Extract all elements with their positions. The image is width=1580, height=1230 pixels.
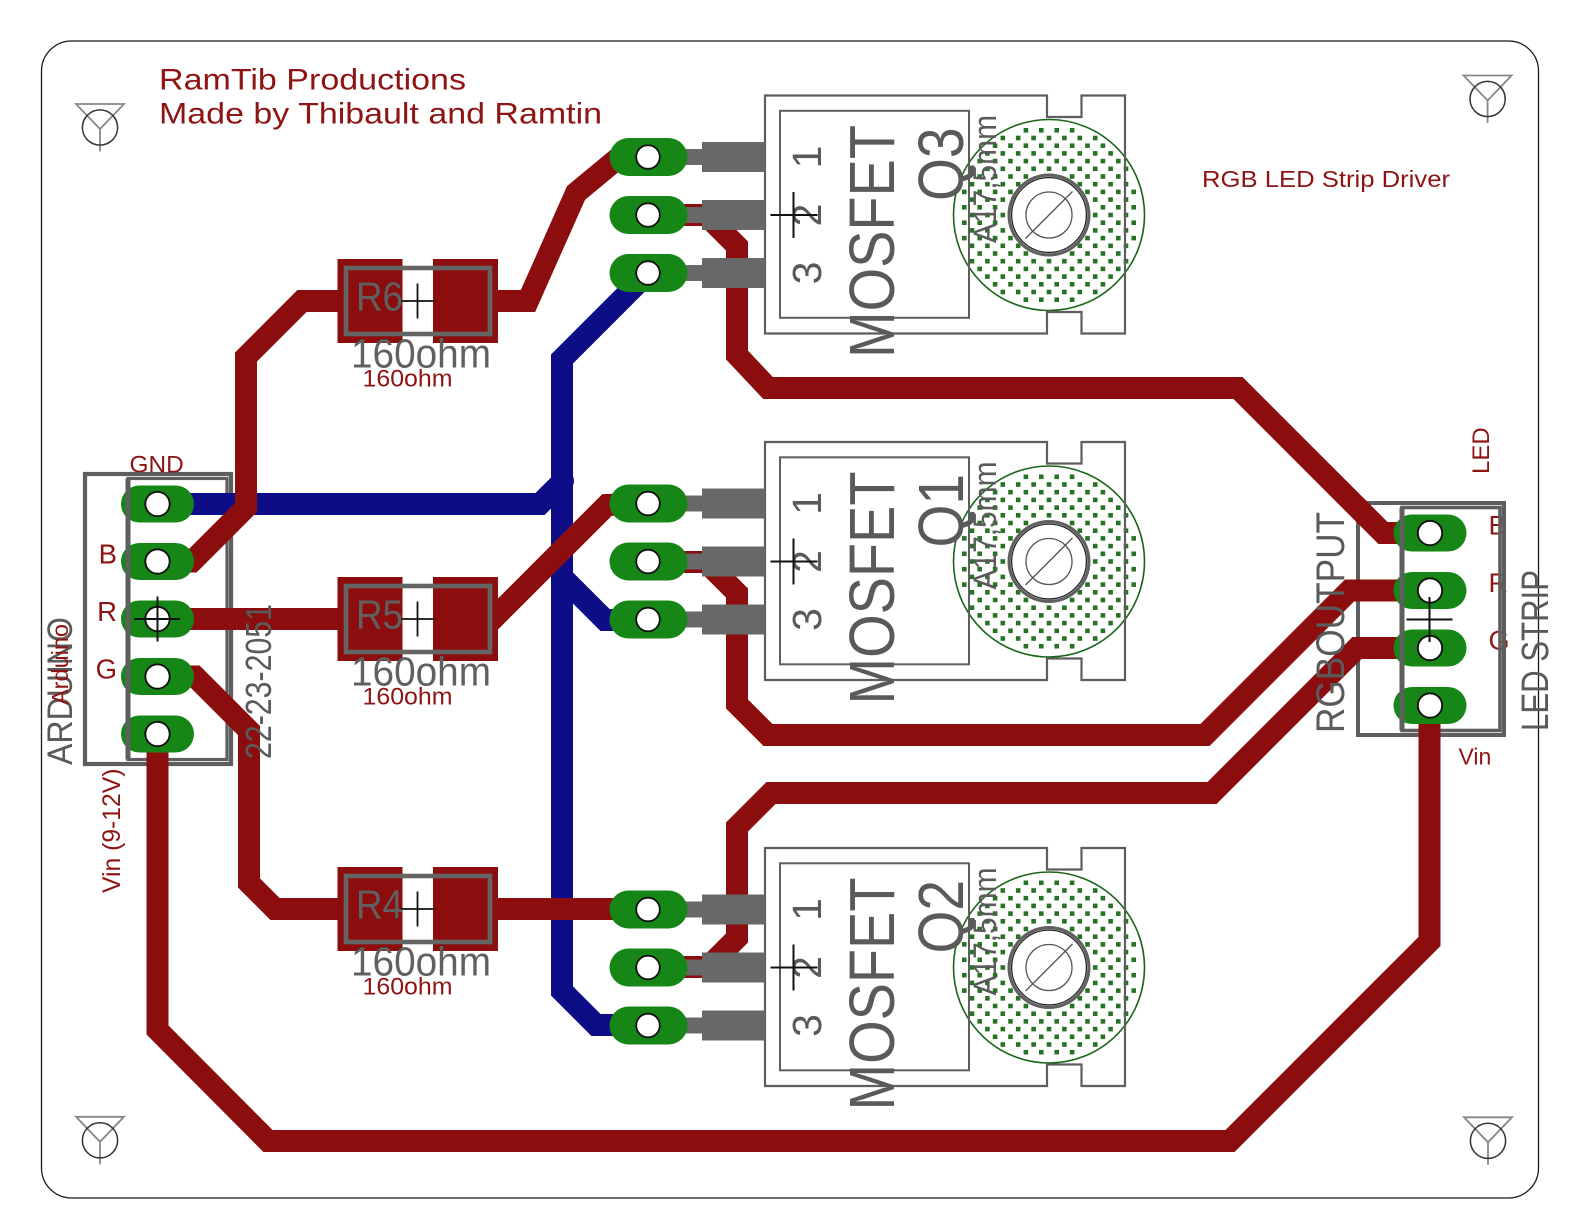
svg-text:RGBOUTPUT: RGBOUTPUT: [1309, 512, 1353, 733]
transistor Q1 MOSFET: [610, 442, 1145, 705]
svg-text:Made by Thibault and Ramtin: Made by Thibault and Ramtin: [159, 98, 602, 131]
svg-text:LED STRIP: LED STRIP: [1515, 570, 1557, 731]
connector J1 pad B: [121, 543, 194, 580]
wire Vin net: ARDUINO Vin pad to LED connector Vin pad: [158, 706, 1430, 1142]
wire R signal: ARDUINO pad R to resistor R5: [158, 608, 371, 630]
connector J1 divider line: [126, 479, 131, 760]
connector J2 crosshair: [1407, 597, 1453, 642]
svg-text:GND: GND: [130, 452, 184, 479]
wire GND net: vertical bus from Q3 pin3 down to Q2 pin3: [562, 273, 648, 1025]
connector J1 crosshair on pad R: [134, 597, 180, 642]
fiducial mark bottom-left: [76, 1117, 124, 1165]
svg-text:R5: R5: [356, 592, 403, 638]
svg-text:B: B: [99, 539, 117, 570]
svg-text:Q1: Q1: [905, 474, 977, 548]
transistor Q3 MOSFET: [610, 96, 1145, 359]
resistor R5 160ohm: [338, 577, 499, 711]
wire B output: Q3 pin2 to LED connector pad B: [648, 215, 1430, 533]
fiducial mark top-right: [1464, 76, 1512, 124]
wire G signal: R4 to Q2 gate pin1: [465, 898, 648, 920]
connector J2 pad R: [1394, 572, 1467, 609]
connector J1 ARDUINO frame: [85, 474, 231, 764]
wire GND net: ARDUINO GND pad to blue bus: [158, 481, 564, 504]
connector J2 pad Vin: [1394, 687, 1467, 724]
svg-text:G: G: [96, 654, 117, 685]
svg-text:R4: R4: [356, 882, 403, 928]
connector J2 pad G: [1394, 630, 1467, 667]
svg-text:Q2: Q2: [905, 880, 977, 954]
fiducial mark bottom-right: [1464, 1117, 1512, 1165]
fiducial mark top-left: [76, 104, 124, 152]
svg-text:R6: R6: [356, 274, 403, 320]
wire R output: Q1 pin2 to LED connector pad R: [648, 562, 1430, 735]
svg-text:RamTib Productions: RamTib Productions: [159, 64, 466, 97]
svg-text:LED: LED: [1468, 427, 1495, 474]
connector J2 RGBOUTPUT frame: [1358, 503, 1504, 735]
svg-text:Q3: Q3: [905, 128, 977, 202]
wire GND net: branch to Q1 pin3: [562, 577, 648, 620]
connector J1 pad R: [121, 601, 194, 638]
transistor Q2 MOSFET: [610, 848, 1145, 1111]
wire B signal: R6 to Q3 gate pin1: [465, 157, 648, 301]
resistor R6 160ohm: [338, 259, 499, 393]
connector J1 pad G: [121, 658, 194, 695]
svg-text:Vin (9-12V): Vin (9-12V): [99, 769, 126, 893]
svg-text:Vin: Vin: [1459, 744, 1492, 770]
wire G output: Q2 pin2 to LED connector pad G: [648, 648, 1430, 967]
connector J2 pad B: [1394, 515, 1467, 552]
wire R signal: R5 to Q1 gate pin1: [465, 504, 648, 618]
connector J1 pad Vin: [121, 716, 194, 753]
svg-text:Arduino: Arduino: [47, 624, 73, 705]
svg-text:22-23-2051: 22-23-2051: [238, 604, 279, 759]
svg-text:R: R: [97, 596, 117, 627]
connector J2 divider line: [1400, 508, 1405, 731]
connector J1 pad GND: [121, 486, 194, 523]
resistor R4 160ohm: [338, 867, 499, 1001]
wire G signal: ARDUINO pad G to resistor R4: [158, 677, 371, 910]
wire B signal: ARDUINO pad B to resistor R6: [158, 301, 371, 562]
svg-text:RGB LED Strip Driver: RGB LED Strip Driver: [1202, 166, 1450, 192]
